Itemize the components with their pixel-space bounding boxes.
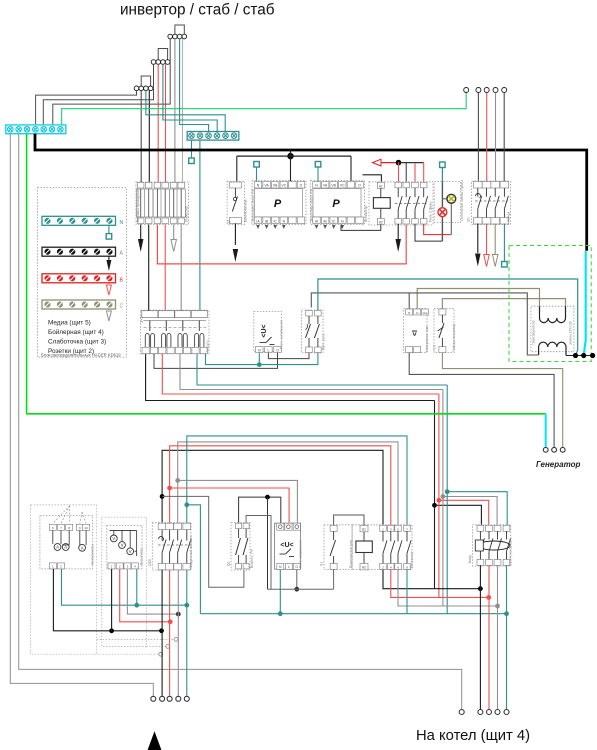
svg-text:Измеритель тока: Измеритель тока xyxy=(425,326,429,352)
svg-text:VB: VB xyxy=(273,184,278,188)
svg-text:СВ3: СВ3 xyxy=(148,559,152,566)
svg-text:C: C xyxy=(120,304,124,310)
svg-text:Энергомер Smart PM: Энергомер Smart PM xyxy=(251,189,255,222)
svg-text:Т10: Т10 xyxy=(433,345,437,351)
svg-text:Генератор: Генератор xyxy=(536,460,580,469)
svg-text:N: N xyxy=(120,220,124,226)
svg-text:IC: IC xyxy=(273,219,277,223)
svg-text:100 А (на 16 кВт): 100 А (на 16 кВт) xyxy=(508,538,512,565)
svg-text:V: V xyxy=(129,549,132,554)
svg-text:Модуль: Модуль xyxy=(206,340,210,352)
svg-text:Клеммы проходные: Клеммы проходные xyxy=(136,189,140,222)
svg-text:Энергомер Smart PM: Энергомер Smart PM xyxy=(310,189,314,222)
svg-text:VA: VA xyxy=(323,184,328,188)
svg-text:Контактор: Контактор xyxy=(410,551,414,568)
svg-text:Инвертор: Инвертор xyxy=(185,206,189,222)
svg-text:A1: A1 xyxy=(379,184,383,188)
svg-text:<U<: <U< xyxy=(280,542,293,549)
svg-text:VC: VC xyxy=(340,184,345,188)
svg-text:Трансформатор: Трансформатор xyxy=(532,320,536,345)
svg-text:VA: VA xyxy=(264,184,269,188)
svg-text:Имп. реле: Имп. реле xyxy=(321,333,325,350)
svg-text:Слаботочка (щит 3): Слаботочка (щит 3) xyxy=(48,338,106,346)
svg-text:A1: A1 xyxy=(362,528,366,532)
svg-text:VB: VB xyxy=(331,184,336,188)
svg-text:Ввод: Ввод xyxy=(468,555,472,563)
svg-text:A2: A2 xyxy=(362,566,366,570)
svg-text:Q: Q xyxy=(227,220,231,223)
svg-text:Реле 2 фазы: Реле 2 фазы xyxy=(429,201,433,222)
svg-text:Модульный автомат: Модульный автомат xyxy=(189,536,193,568)
svg-text:Улица: Улица xyxy=(507,212,511,222)
svg-text:L: L xyxy=(288,565,290,569)
svg-text:Бойлерная (щит 4): Бойлерная (щит 4) xyxy=(48,328,104,336)
svg-text:In: In xyxy=(416,311,419,315)
svg-text:IC: IC xyxy=(332,219,336,223)
svg-text:Выключатель: Выключатель xyxy=(244,199,248,222)
svg-text:Амперметры: Амперметры xyxy=(91,544,95,565)
svg-text:N: N xyxy=(408,311,410,315)
svg-text:Медиа (щит 5): Медиа (щит 5) xyxy=(48,320,91,327)
svg-text:O: O xyxy=(358,184,361,188)
svg-text:V: V xyxy=(121,543,124,548)
svg-text:Контактор: Контактор xyxy=(364,205,368,222)
svg-text:VC: VC xyxy=(281,184,286,188)
svg-text:<U<: <U< xyxy=(261,324,268,337)
svg-text:Таймер-генератор: Таймер-генератор xyxy=(452,324,456,352)
svg-text:O: O xyxy=(300,184,303,188)
svg-text:Сигнальные лампы 2 фазы: Сигнальные лампы 2 фазы xyxy=(460,180,464,221)
svg-text:Out: Out xyxy=(423,311,428,315)
svg-text:P: P xyxy=(274,198,282,210)
svg-text:Реле напряжения: Реле напряжения xyxy=(279,320,283,349)
svg-text:A: A xyxy=(56,545,59,550)
svg-text:инвертор / стаб / стаб: инвертор / стаб / стаб xyxy=(120,2,275,19)
svg-text:V: V xyxy=(112,536,115,541)
svg-text:<I: <I xyxy=(412,330,419,336)
svg-text:Вольтметр: Вольтметр xyxy=(140,548,144,565)
svg-text:Реле напряжения: Реле напряжения xyxy=(298,540,302,568)
svg-text:10: 10 xyxy=(84,526,88,530)
svg-text:(Л): (Л) xyxy=(467,218,471,222)
svg-text:A: A xyxy=(81,546,84,551)
svg-text:Выключ. РН: Выключ. РН xyxy=(250,548,254,568)
svg-text:Звонок 220/12В: Звонок 220/12В xyxy=(569,320,573,345)
svg-text:На котел (щит 4): На котел (щит 4) xyxy=(416,728,530,744)
svg-text:L: L xyxy=(267,348,269,352)
svg-text:Блок распределительных HAGER K: Блок распределительных HAGER KD619 xyxy=(41,353,121,358)
svg-text:A2: A2 xyxy=(379,221,383,225)
svg-text:Q1: Q1 xyxy=(227,561,231,566)
svg-text:P: P xyxy=(332,198,340,210)
svg-text:S1: S1 xyxy=(320,562,324,566)
